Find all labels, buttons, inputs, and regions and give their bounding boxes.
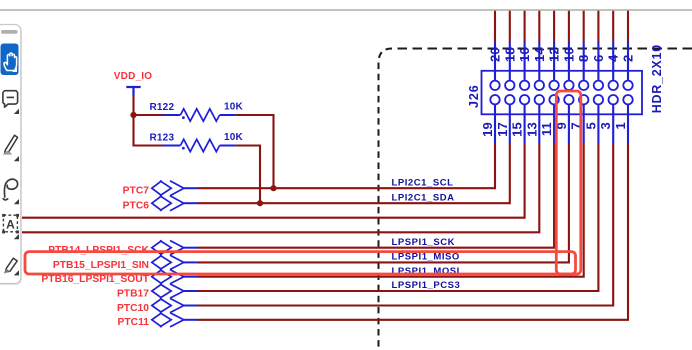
svg-text:PTB17: PTB17 [117,288,149,299]
svg-text:4: 4 [606,54,621,62]
svg-text:15: 15 [510,122,525,137]
svg-text:13: 13 [524,122,539,137]
svg-text:LPI2C1_SCL: LPI2C1_SCL [392,177,454,188]
svg-text:J26: J26 [467,84,481,108]
svg-text:LPI2C1_SDA: LPI2C1_SDA [392,192,455,203]
svg-text:19: 19 [480,122,495,137]
svg-text:6: 6 [591,55,606,62]
svg-text:LPSPI1_SCK: LPSPI1_SCK [392,237,456,248]
svg-text:14: 14 [532,47,547,62]
svg-text:10K: 10K [224,132,244,143]
svg-text:R122: R122 [150,102,175,113]
svg-text:10K: 10K [224,102,244,113]
svg-text:20: 20 [488,47,503,62]
svg-text:PTC6: PTC6 [123,201,150,212]
svg-text:LPSPI1_MISO: LPSPI1_MISO [392,252,460,263]
svg-text:PTC7: PTC7 [123,186,150,197]
svg-text:PTB16_LPSPI1_SOUT: PTB16_LPSPI1_SOUT [41,274,149,285]
svg-text:PTC11: PTC11 [118,317,150,328]
svg-text:18: 18 [502,47,517,62]
svg-text:PTB15_LPSPI1_SIN: PTB15_LPSPI1_SIN [53,260,149,271]
svg-text:A: A [6,217,15,231]
svg-text:10: 10 [561,47,576,62]
svg-text:HDR_2X10: HDR_2X10 [650,44,664,113]
svg-text:LPSPI1_PCS3: LPSPI1_PCS3 [392,280,461,291]
svg-text:16: 16 [517,47,532,62]
svg-text:5: 5 [583,122,598,129]
svg-text:12: 12 [547,47,562,62]
svg-text:17: 17 [495,122,510,137]
svg-text:2: 2 [621,55,636,62]
svg-text:8: 8 [576,55,591,62]
svg-text:11: 11 [539,122,554,136]
svg-text:3: 3 [598,122,613,129]
svg-text:R123: R123 [150,133,175,144]
svg-text:1: 1 [613,122,628,129]
svg-text:VDD_IO: VDD_IO [114,71,152,82]
svg-text:PTC10: PTC10 [117,303,149,314]
